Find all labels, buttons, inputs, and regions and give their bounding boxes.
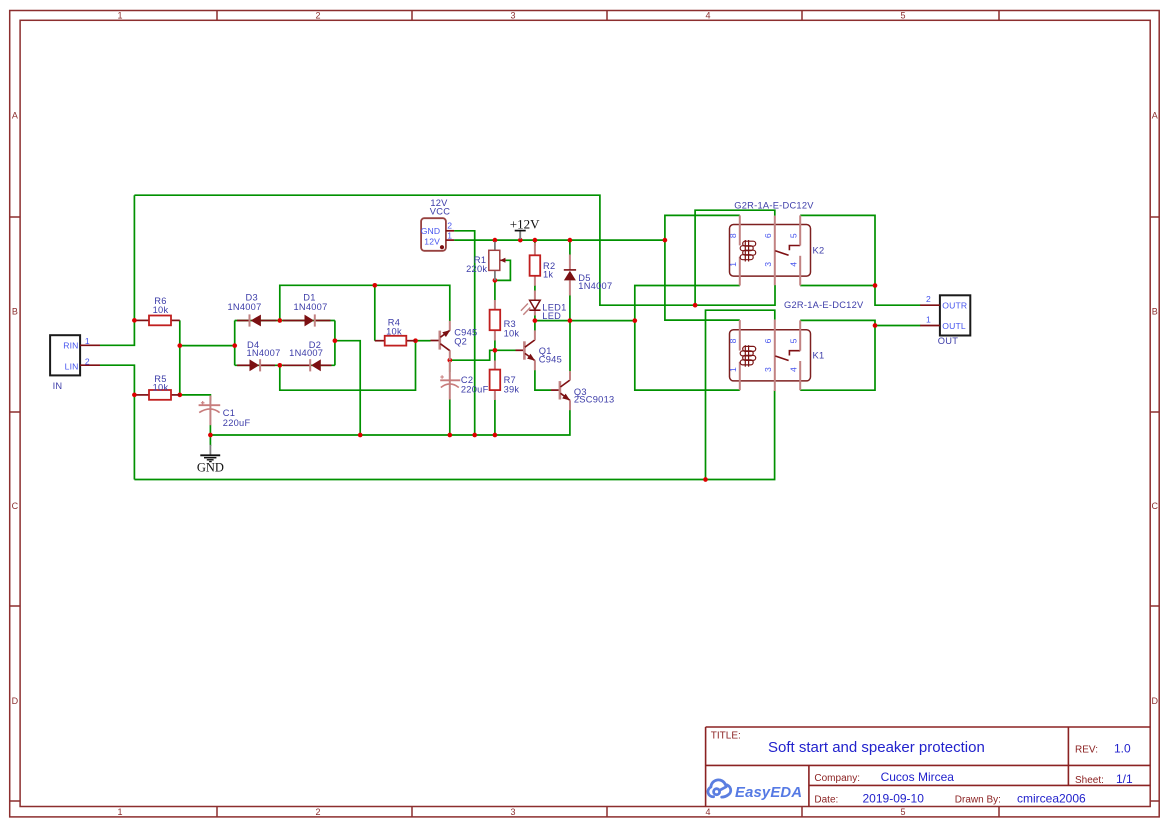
ruler tick top 3 [606,11,608,21]
ruler tick right 4 [1150,800,1159,802]
wire C2 to ground bus [449,399,451,435]
svg-text:LED: LED [542,311,561,321]
junction dot R5 right [177,393,182,398]
svg-text:G2R-1A-E-DC12V: G2R-1A-E-DC12V [734,200,814,210]
svg-text:3: 3 [510,10,515,20]
transistor Q3 [551,371,614,410]
svg-text:39k: 39k [504,384,520,394]
svg-text:4: 4 [705,807,710,817]
svg-text:Q2: Q2 [454,337,467,347]
wire VCC pin2 to ground bus [454,231,475,435]
junction dot rail R1 [493,238,498,243]
ruler tick top 5 [998,11,1000,21]
svg-text:1k: 1k [543,270,553,280]
svg-text:10k: 10k [153,305,169,315]
svg-text:VCC: VCC [430,207,450,217]
svg-text:D1: D1 [303,293,315,303]
wire bridge row1 [235,320,335,322]
resistor R6 [137,296,180,325]
svg-text:5: 5 [788,338,798,343]
svg-text:1N4007: 1N4007 [578,281,612,291]
diode D2 [283,340,332,372]
junction dot Q2 emitter [447,358,452,363]
svg-text:12V: 12V [424,236,440,246]
svg-text:10k: 10k [153,383,169,393]
svg-text:OUT: OUT [938,336,958,346]
junction dot R5 left [132,393,137,398]
junction dot rail D5 [568,238,573,243]
wire coil node down to K1 pin1 [635,321,740,391]
diode D4 [237,340,281,372]
svg-text:2: 2 [315,10,320,20]
svg-text:10k: 10k [504,328,520,338]
svg-text:LIN: LIN [65,361,79,371]
svg-text:1/1: 1/1 [1116,772,1133,786]
svg-text:4: 4 [788,367,798,372]
wire R7 to ground bus [494,400,496,436]
ruler tick right 3 [1150,605,1159,607]
wire Q1 emitter to Q3 base [535,370,551,390]
junction dot R4 right [413,338,418,343]
junction dot K2 common [693,303,698,308]
wire R4 to Q2 base [416,340,431,342]
wire K1 pin6 branch [706,310,775,479]
svg-text:10k: 10k [386,327,402,337]
junction dot rail flag [518,238,523,243]
ruler tick top 1 [216,11,218,21]
svg-text:220uF: 220uF [223,418,251,428]
svg-text:2019-09-10: 2019-09-10 [863,792,925,806]
power port VCC 12V [421,198,454,251]
wire bridge left rail [234,321,236,366]
connector P_OUT box [920,294,970,346]
wire R5 to C1 [180,395,211,401]
svg-text:1: 1 [85,336,90,346]
svg-text:C2: C2 [461,375,473,385]
ruler tick left 3 [10,605,20,607]
junction dot bus bridge [358,433,363,438]
junction dot C1 bottom [208,433,213,438]
capacitor C1 [199,396,251,429]
wire to bridge input [180,345,235,347]
junction dot K1 contact out [873,323,878,328]
connector P_IN box [50,335,100,391]
svg-text:C: C [1151,501,1158,511]
svg-text:GND: GND [197,460,224,474]
junction dot R6 left [132,318,137,323]
svg-text:D: D [1151,696,1158,706]
junction dot bridge row1 center [277,318,282,323]
svg-text:1: 1 [117,10,122,20]
diode D1 [283,293,331,327]
svg-text:6: 6 [763,233,773,238]
svg-text:1: 1 [447,230,452,240]
ruler tick bottom 3 [606,807,608,817]
resistor R2 [530,243,556,286]
svg-text:Company:: Company: [814,773,860,784]
svg-text:1N4007: 1N4007 [227,302,261,312]
svg-text:B: B [1152,307,1158,317]
junction dot bridge row2 center [277,363,282,368]
wire node to Q1 base [495,349,516,351]
svg-text:5: 5 [788,233,798,238]
junction dot bridge left rail [232,343,237,348]
ruler tick right 2 [1150,411,1159,413]
svg-text:Sheet:: Sheet: [1075,775,1104,786]
wire C1 to ground bus [209,425,211,436]
svg-text:A: A [1152,111,1158,121]
wire LIN to bottom run [100,365,134,479]
wire K1 pin5 to pin4 link [800,320,875,390]
junction dot bus VCC gnd [472,433,477,438]
svg-text:2: 2 [926,294,931,304]
junction dot bus C2 [447,433,452,438]
svg-text:1N4007: 1N4007 [289,348,323,358]
wire Q1 collector riser [534,321,536,331]
svg-text:IN: IN [53,381,63,391]
svg-text:3: 3 [763,367,773,372]
potentiometer R1 [466,242,506,281]
svg-text:1: 1 [117,807,122,817]
svg-text:1: 1 [728,262,738,267]
ground symbol GND [197,445,224,475]
ruler tick right 1 [1150,216,1159,218]
svg-text:1: 1 [926,314,931,324]
svg-text:C: C [12,501,19,511]
ruler tick left 4 [10,800,20,802]
svg-text:6: 6 [763,338,773,343]
wire bridge right output drop [335,341,360,435]
relay K1 [728,300,864,391]
svg-text:Soft start and speaker protect: Soft start and speaker protection [768,739,985,756]
svg-text:Cucos Mircea: Cucos Mircea [881,770,955,784]
ruler tick bottom 2 [411,807,413,817]
transistor Q2 [431,321,478,360]
wire gnd stub [209,435,211,446]
junction dot rail relays [663,238,668,243]
ruler tick bottom 1 [216,807,218,817]
wire +12V rail [454,239,665,241]
junction dot LED rail Q1 [533,318,538,323]
wire R1 wiper loop [495,260,511,280]
svg-text:C945: C945 [539,354,562,364]
svg-text:D3: D3 [246,293,258,303]
wire +12V to K2 pin8 [665,215,740,240]
wire Q2 to C2 [449,360,451,372]
svg-text:5: 5 [900,807,905,817]
svg-text:REV:: REV: [1075,745,1098,756]
svg-text:2: 2 [315,807,320,817]
junction dot R4 top [372,283,377,288]
svg-text:8: 8 [728,233,738,238]
svg-text:4: 4 [705,10,710,20]
wire K2 pin4 [800,285,875,287]
svg-text:1: 1 [728,367,738,372]
svg-text:K1: K1 [813,351,825,361]
junction dot bus R7 [493,433,498,438]
power flag +12V [510,217,540,240]
resistor R5 [137,374,180,400]
wire K2 pin6 branch [695,210,775,305]
wire coil node up to K2 pin1 [635,286,740,321]
title block border [706,727,1151,807]
wire D5 bottom [569,295,571,321]
svg-text:B: B [12,307,18,317]
svg-text:3: 3 [510,807,515,817]
junction dot bridge input [177,343,182,348]
resistor R4 [375,317,416,345]
EasyEDA logo cloud [708,780,731,797]
wire bridge right rail [334,321,336,366]
capacitor C2 [440,361,488,400]
wire OUTL [875,325,921,327]
svg-text:2SC9013: 2SC9013 [574,394,615,404]
wire bottom long run to K1 pin3 [134,391,774,480]
svg-text:A: A [12,111,18,121]
junction dot K2 contact out [873,283,878,288]
svg-text:2: 2 [447,221,452,231]
svg-text:1.0: 1.0 [1114,742,1131,756]
wire K2 pin5 to pin4 link [800,215,920,305]
wire R3 to node [494,340,496,350]
resistor R7 [490,361,520,401]
wire R6 R5 middle riser [179,320,181,395]
svg-text:OUTR: OUTR [942,301,967,311]
ruler tick bottom 5 [998,807,1000,817]
wire LED rail [535,320,635,322]
svg-text:5: 5 [900,10,905,20]
ruler tick left 1 [10,216,20,218]
svg-text:RIN: RIN [63,341,78,351]
wire Q3 collector riser [569,321,571,372]
junction dot rail R2 [533,238,538,243]
svg-text:3: 3 [763,262,773,267]
wire R4 drop [374,285,376,340]
svg-text:C1: C1 [223,408,235,418]
wire ground bus [210,410,570,435]
svg-text:TITLE:: TITLE: [711,731,741,742]
junction dot R1 bottom [493,278,498,283]
wire RIN to riser [100,195,134,345]
transistor Q1 [516,330,563,370]
wire D5 top [569,240,571,255]
diode D5 [564,255,613,296]
junction dot bridge right rail [333,338,338,343]
wire bridge row1 top branch [280,285,450,321]
wire R4 lower loop [280,341,416,391]
svg-text:8: 8 [728,338,738,343]
svg-text:G2R-1A-E-DC12V: G2R-1A-E-DC12V [784,300,864,310]
diode D3 [227,293,276,327]
svg-text:K2: K2 [813,246,825,256]
ruler tick left 2 [10,411,20,413]
wire top bus [134,195,775,305]
svg-text:2: 2 [85,357,90,367]
svg-text:D: D [12,696,19,706]
LED LED1 [521,291,567,321]
wire +12V to K1 pin8 [665,240,740,320]
wire node to R7 [494,350,496,361]
svg-text:cmircea2006: cmircea2006 [1017,792,1086,806]
wire R1 to R3 [494,280,496,300]
svg-text:Date:: Date: [814,795,838,806]
junction dot LED rail Q3 [568,318,573,323]
junction dot coil node [632,318,637,323]
wire LED gap [534,285,536,291]
svg-text:1N4007: 1N4007 [293,302,327,312]
relay K2 [728,200,824,285]
resistor R3 [490,300,520,341]
junction dot R3 R7 node [493,348,498,353]
ruler tick bottom 4 [801,807,803,817]
svg-text:EasyEDA: EasyEDA [735,785,802,801]
ruler tick top 4 [801,11,803,21]
wire LED to rail [534,315,536,321]
wire Q2 emitter node [450,350,495,360]
svg-text:220k: 220k [466,264,487,274]
wire R2 top [534,240,536,246]
svg-text:GND: GND [421,226,441,236]
svg-text:Drawn By:: Drawn By: [955,795,1001,806]
svg-text:4: 4 [788,262,798,267]
svg-text:220uF: 220uF [461,384,489,394]
wire bridge row2 [235,364,335,366]
svg-text:OUTL: OUTL [942,321,966,331]
svg-text:+12V: +12V [510,217,540,232]
svg-text:1N4007: 1N4007 [246,348,280,358]
junction dot K1 common bottom [703,477,708,482]
ruler tick top 2 [411,11,413,21]
